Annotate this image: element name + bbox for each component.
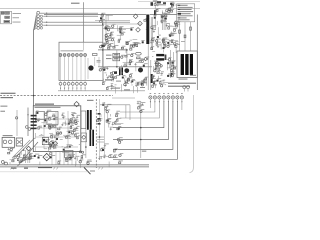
wire: [125, 48, 127, 53]
label below ground 2: [38, 167, 52, 168]
east-west part D628: [129, 61, 133, 64]
label dust b+: [128, 80, 131, 83]
transformer T602 core bar 2: [92, 130, 94, 146]
wire pin 5 stub: [76, 85, 77, 91]
wire: [175, 4, 177, 6]
AC pin 2: [8, 140, 12, 144]
filter marks: [66, 152, 72, 156]
psu bottom part C674: [74, 156, 80, 160]
wire bus y66.8: [98, 66, 152, 68]
b+ part C631: [110, 86, 114, 90]
notes text key 1: [178, 5, 181, 6]
hv part C626: [154, 61, 158, 65]
IC left dark mark 4: [31, 128, 37, 130]
flyback feed part D637: [172, 73, 176, 76]
wire degauss stubs: [184, 89, 188, 92]
hv part extra C687: [170, 61, 175, 64]
deflection part R628: [137, 82, 141, 85]
fuse F601: [154, 10, 156, 15]
transformer T601 core bar 2: [90, 110, 92, 130]
vert part Q615: [127, 77, 132, 81]
psu bottom part D622: [34, 154, 40, 157]
wire: [64, 135, 71, 137]
wire: [158, 76, 160, 80]
b+ part C636: [110, 74, 114, 77]
wire: [140, 104, 144, 106]
deflection part C640: [145, 77, 149, 80]
connector CN2 pin 5: [37, 27, 43, 30]
abl part C629: [157, 78, 162, 81]
psu input part lower R678: [153, 15, 156, 18]
flyback feed part D636: [172, 64, 175, 67]
psu mid right part R683: [152, 37, 155, 40]
wire: [123, 61, 131, 63]
label above CRT 1: [112, 88, 120, 89]
wire: [100, 156, 109, 158]
CRT connector pin 6: [171, 96, 174, 99]
wire: [163, 12, 170, 14]
b+ upper part C681: [103, 44, 108, 47]
degauss pin 1: [183, 86, 186, 89]
label dust hv: [169, 63, 172, 66]
IC part C643: [44, 118, 48, 121]
wire: [107, 27, 114, 29]
wire: [146, 80, 148, 85]
b+ upper part Q635: [109, 43, 114, 47]
ac filter part R657: [8, 147, 13, 151]
IC part D618: [73, 119, 77, 123]
arrow net2: [46, 16, 49, 17]
label below ground 3: [24, 168, 28, 169]
wire: [68, 159, 72, 161]
front panel box: [59, 42, 103, 80]
label dust IC: [49, 132, 52, 135]
psu mid part D625: [49, 144, 52, 147]
legend label PROFILE: [13, 16, 20, 19]
wire: [175, 47, 177, 53]
label CRT pin 3: [159, 92, 161, 95]
psu input part lower R680: [164, 14, 167, 17]
vert part R624: [125, 83, 130, 87]
connector CN2 pin 1: [37, 15, 43, 18]
label dust b+: [131, 84, 132, 87]
crt drive part C680: [141, 102, 145, 106]
label dust IC: [74, 122, 76, 125]
wire: [157, 27, 159, 34]
degauss area part C601: [130, 27, 134, 30]
line input part Q644: [101, 13, 105, 17]
pin circle x29: [28, 128, 31, 131]
video part R667: [109, 154, 113, 157]
wire: [79, 162, 81, 168]
b+ part R619: [106, 66, 110, 70]
standby part C653: [106, 104, 111, 108]
psu bottom part C670: [50, 155, 55, 158]
diamond D611: [53, 141, 57, 145]
east-west upper part R675: [130, 47, 134, 50]
wire flyback feed 2: [173, 52, 175, 76]
IC part D617: [48, 124, 52, 127]
psu top part C683: [162, 40, 165, 43]
junction: [33, 95, 35, 97]
notes text line 7: [178, 17, 187, 18]
b+ upper part Q636: [100, 44, 106, 48]
IC inner box 2: [47, 112, 58, 125]
IC part Q617: [48, 126, 51, 130]
notes text line 3: [178, 9, 192, 10]
label fuse: [153, 0, 158, 1]
wire: [163, 82, 169, 84]
abl part Q610: [160, 84, 164, 88]
notes text line 1: [178, 5, 188, 6]
IC part R634: [48, 125, 52, 128]
label dust b+: [125, 76, 127, 79]
psu chain part R610: [166, 23, 170, 26]
psu input part lower C694: [161, 14, 166, 17]
lamp L606: [80, 54, 83, 57]
line filter part D604: [107, 40, 111, 43]
diamond D610: [49, 141, 53, 145]
resistor R691: [179, 30, 181, 33]
wire: [132, 86, 134, 93]
wire: [62, 152, 69, 154]
hv part R614: [167, 74, 172, 77]
east-west part R672: [125, 54, 130, 57]
degauss pin 2: [187, 86, 190, 89]
junction: [116, 66, 118, 68]
wire: [106, 14, 113, 16]
wire lamp 3 drop: [68, 57, 70, 83]
psu mid right part R682: [151, 46, 154, 49]
label dust hv: [152, 55, 153, 58]
wire CRT stub 6: [172, 99, 173, 103]
psu bottom part C657: [38, 155, 43, 158]
diode D310: [114, 71, 117, 74]
label T601: [87, 100, 94, 101]
line filter part C608: [110, 32, 114, 35]
rectifier part R604: [134, 42, 138, 46]
east-west part D627: [124, 64, 128, 67]
line filter part Q605: [105, 33, 109, 37]
pin circle mid 1: [57, 132, 59, 134]
degauss area part R601: [120, 30, 123, 33]
wire: [67, 118, 69, 121]
spark gap SG301: [133, 14, 138, 19]
connector CN2 pin 2: [37, 18, 43, 21]
label CRT pin 4: [163, 92, 165, 95]
flyback core bar 2: [185, 54, 188, 75]
degauss area part Q601: [112, 24, 116, 28]
wire CRT stub 7: [177, 99, 178, 103]
wire IC h1: [36, 118, 76, 120]
label dust IC: [60, 138, 63, 141]
wire: [168, 24, 170, 29]
lamp L601: [59, 54, 62, 57]
standby part R646: [104, 144, 109, 148]
pin circle bottom 1: [1, 161, 4, 164]
wire diagonal 2: [18, 142, 38, 166]
diode D320 diamond: [144, 57, 148, 61]
wire pin 7 stub: [85, 85, 86, 91]
top bus wire right段: [150, 14, 177, 16]
IC part C651: [56, 137, 59, 140]
wire: [35, 133, 37, 139]
junction: [102, 49, 104, 51]
wire pin 4 stub: [72, 85, 73, 91]
wire pin 3 stub: [68, 85, 69, 91]
psu bottom part C675: [66, 159, 70, 162]
wire: [64, 120, 66, 126]
CRT connector pin 7: [176, 96, 179, 99]
psu input part lower C696: [161, 15, 165, 18]
wire: [150, 22, 152, 28]
hdrive part R611: [141, 59, 145, 62]
video part Q631: [118, 140, 123, 144]
wire: [135, 66, 137, 72]
wire: [172, 25, 176, 27]
label top right: [158, 4, 166, 5]
relay box: [42, 138, 48, 145]
b+ upper part C682: [108, 46, 113, 49]
hv part extra Q642: [154, 69, 159, 73]
wire: [169, 40, 178, 42]
wire IC h3: [36, 136, 78, 138]
connector CN2 pin 3: [37, 21, 43, 24]
label dust hv: [163, 79, 166, 82]
b+ part Q612: [99, 68, 103, 72]
label dust b+: [111, 80, 112, 83]
wire: [51, 133, 53, 139]
label B board line1: [1, 93, 16, 94]
label dust IC: [42, 140, 44, 143]
IC part R636: [70, 117, 75, 120]
wire hv feed 3: [190, 22, 192, 51]
capacitor C320 oval: [136, 52, 142, 55]
psu top part C685: [163, 44, 166, 47]
vert part C637: [130, 80, 135, 84]
diamond D601 top: [74, 102, 79, 107]
crt drive part R669: [137, 101, 140, 105]
psu top part C686: [163, 46, 167, 49]
notes text line 2: [178, 7, 193, 8]
psu input part D633: [170, 2, 174, 5]
label 12V: [142, 151, 147, 152]
psu mid part R652: [54, 135, 57, 138]
capacitor C601 leads: [162, 12, 166, 30]
flyback T601 box: [177, 51, 197, 78]
psu bottom part Q626: [68, 154, 72, 158]
IC part C647: [58, 127, 62, 130]
hdrive part C618: [139, 59, 143, 62]
spark gap SG303: [136, 28, 141, 33]
wire: [166, 38, 170, 40]
bus wire down to B board: [33, 30, 35, 106]
rectifier part D605: [130, 44, 134, 47]
notes text key 3: [178, 9, 181, 10]
IC part C650: [69, 144, 72, 147]
video part D626: [117, 127, 122, 130]
IC part R630: [49, 146, 53, 149]
standby part C655: [101, 148, 104, 151]
abl part D610: [152, 84, 157, 87]
b+ part C635: [114, 75, 120, 78]
wire: [117, 122, 124, 124]
label dust hv: [171, 68, 172, 71]
IC part C646: [68, 121, 72, 124]
label dust IC: [77, 136, 79, 139]
psu bottom part C661: [17, 157, 22, 160]
label dust hv: [153, 77, 156, 80]
arrow net4: [46, 25, 49, 26]
notes text key 5: [178, 13, 181, 14]
wire right border: [196, 15, 198, 91]
deflection part R625: [141, 82, 147, 85]
psu bottom part Q628: [79, 160, 83, 164]
IC right part C702: [70, 125, 74, 128]
wire CRT net K4: [181, 102, 183, 110]
wire: [100, 114, 102, 117]
deflection part R626: [135, 84, 140, 88]
standby part R641: [99, 118, 102, 122]
psu chain part R608: [172, 33, 177, 37]
psu input part C692: [156, 8, 160, 11]
flyback feed part R685: [173, 66, 176, 69]
wire CRT stub 2: [154, 99, 155, 103]
psu chain part C616: [175, 44, 180, 47]
line filter part Q604: [109, 35, 114, 39]
wire: [10, 159, 15, 161]
psu bottom part R653: [65, 157, 70, 160]
wire: [121, 65, 123, 67]
label dust IC: [72, 115, 74, 118]
wire CRT stub 1: [150, 99, 151, 103]
wire IC v3: [67, 111, 69, 149]
flyback feed part R686: [169, 57, 172, 60]
label dust IC: [67, 130, 69, 133]
page edge right gray line: [190, 95, 194, 173]
label TP-202: [71, 3, 80, 4]
IC part Q619: [74, 120, 78, 124]
panel pin 7: [84, 82, 87, 85]
hv part C621: [157, 67, 161, 70]
panel pin 6: [80, 82, 83, 85]
legend swatch W: [1, 12, 4, 14]
standby part C654: [105, 106, 108, 109]
label near bottom diagonal: [90, 171, 95, 172]
IC part R631: [45, 112, 49, 115]
deflection part Q616: [141, 83, 147, 87]
abl part C630: [151, 76, 155, 80]
resistor box ZA2: [113, 57, 120, 60]
wire: [155, 85, 157, 88]
psu mid part C666: [75, 133, 80, 136]
wire: [39, 162, 41, 166]
arrowhead diagonal: [22, 149, 24, 151]
b+ part C633: [107, 76, 112, 80]
wire: [121, 29, 126, 31]
degauss area part C604: [104, 25, 108, 29]
psu chain part D609: [168, 26, 173, 29]
label video top 1: [105, 79, 112, 80]
line filter part Q603: [111, 38, 115, 42]
IC part R629: [38, 126, 42, 129]
wire: [167, 45, 170, 47]
wire hv feed 1: [179, 22, 181, 51]
label dust IC: [37, 119, 39, 122]
dark mark psu top 2: [157, 1, 161, 3]
psu chain part C613: [176, 21, 181, 24]
wire: [107, 45, 109, 50]
wire: [108, 162, 110, 168]
IC right part C703: [61, 123, 66, 127]
IC left dark mark 3: [31, 124, 37, 126]
psu bottom part C673: [86, 160, 91, 163]
wire: [153, 66, 155, 72]
transformer T601 core bar 1: [87, 110, 89, 130]
IC right part D638: [62, 115, 65, 119]
psu microtext part C689: [169, 7, 173, 10]
IC left dark mark 1: [31, 118, 37, 120]
IC part D614: [36, 111, 39, 114]
wire: [114, 87, 116, 94]
east-west upper part C690: [121, 46, 125, 49]
psu mid part Q623: [71, 130, 76, 134]
abl part D611: [153, 81, 156, 84]
wire left x28 arrows: [27, 108, 29, 137]
wire x140.8: [140, 101, 142, 158]
lamp L603: [67, 54, 70, 57]
standby part R643: [96, 119, 101, 122]
wire x125.9: [125, 105, 127, 118]
wire IC pin comb: [52, 152, 76, 165]
wire bus y24: [104, 23, 141, 25]
label below ground 1: [11, 168, 17, 169]
hv part C622: [170, 73, 173, 76]
wire vertical x126.9: [126, 50, 128, 67]
legend label POWER: [13, 21, 21, 24]
ac filter part Q629: [18, 154, 22, 158]
resistor R605: [93, 54, 98, 56]
vert part R622: [127, 78, 130, 81]
wire x99.5: [99, 99, 101, 160]
IC part C649: [35, 119, 39, 122]
wire bus y49.9: [98, 49, 127, 51]
label video top 2: [116, 81, 121, 82]
psu bottom part Q627: [69, 156, 73, 159]
psu mid right part R681: [163, 38, 167, 42]
label hv feed: [181, 40, 185, 43]
page edge top-right faint line: [138, 1, 200, 3]
wire AC drops: [25, 150, 30, 163]
label dust IC: [46, 118, 48, 121]
label dust hv: [165, 83, 166, 86]
line filter part D603: [105, 36, 108, 39]
video part Q632: [119, 153, 123, 157]
b+ part C632: [102, 81, 106, 84]
line filter part C605: [125, 41, 129, 44]
arrow net3: [46, 22, 49, 23]
IC601 inner header strip: [35, 107, 61, 108]
wire: [105, 74, 107, 76]
notes text line 8: [178, 19, 190, 20]
label CRT pin 2: [154, 92, 156, 95]
resistor box ZA1: [113, 53, 120, 56]
choke L602 core: [151, 74, 153, 83]
label dust hv: [156, 65, 159, 68]
psu bottom part R654: [58, 161, 61, 164]
wire: [112, 74, 114, 82]
ground hatch 1: [10, 167, 15, 169]
